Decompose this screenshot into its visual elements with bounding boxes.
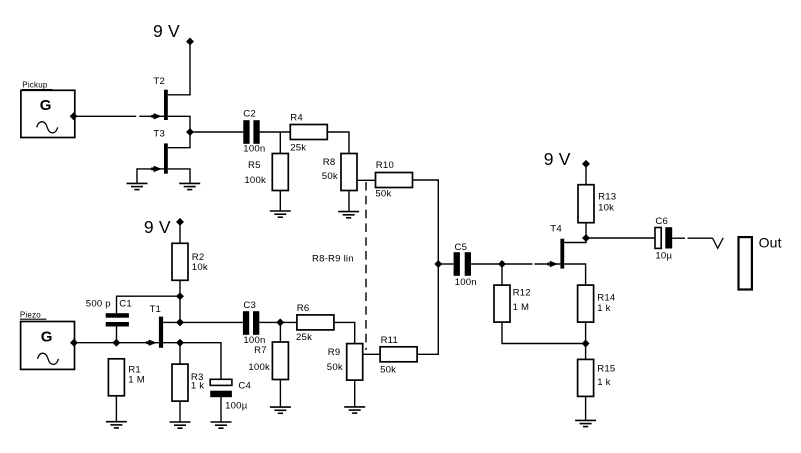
capacitor C1 bbox=[106, 313, 129, 326]
transistor T2 gate arrow bbox=[151, 113, 162, 119]
label Pickup bbox=[22, 81, 48, 90]
wire R10 to mix node bbox=[413, 180, 439, 264]
node R2/C1 junction bbox=[177, 293, 184, 300]
label T2 bbox=[153, 76, 165, 87]
wire 9V to R13 bbox=[585, 167, 587, 185]
wire T1 drain node to C3 bbox=[180, 321, 243, 323]
label Out bbox=[759, 235, 782, 251]
sine symbol (pickup) bbox=[37, 122, 58, 133]
wire gate node to R12 bbox=[501, 264, 503, 285]
wire R7 to ground bbox=[279, 380, 281, 408]
ground (R5) bbox=[270, 211, 291, 217]
wire C2 to R4 bbox=[260, 131, 291, 133]
ground (T3 gate) bbox=[127, 183, 148, 189]
node R14/R15 junction bbox=[582, 340, 589, 347]
label R4 value 25k bbox=[290, 142, 306, 153]
node T1 source junction bbox=[177, 339, 184, 346]
wire T4 drain bbox=[564, 238, 586, 243]
svg-text:10k: 10k bbox=[192, 262, 208, 273]
svg-text:R14: R14 bbox=[597, 292, 616, 303]
label R14 bbox=[597, 292, 616, 303]
label R2 bbox=[192, 252, 205, 263]
label R7 value 100k bbox=[248, 362, 270, 373]
wire T2/T3 node to C2 bbox=[190, 131, 243, 133]
ground (R1) bbox=[106, 422, 127, 428]
node piezo input junction bbox=[113, 339, 120, 346]
label R2 value 10k bbox=[192, 262, 208, 273]
svg-text:25k: 25k bbox=[290, 142, 306, 153]
node 9V right terminal bbox=[583, 161, 590, 168]
svg-text:R8-R9 lin: R8-R9 lin bbox=[312, 253, 354, 264]
label R6 value 25k bbox=[296, 332, 312, 343]
svg-text:1 M: 1 M bbox=[128, 375, 145, 386]
label G (pickup generator) bbox=[40, 97, 52, 114]
wire pickup to T2 gate (segment 2) bbox=[139, 115, 164, 117]
svg-text:R5: R5 bbox=[248, 160, 261, 171]
ground (T3 source) bbox=[179, 183, 200, 189]
source box Piezo bbox=[20, 319, 75, 369]
capacitor C5 bbox=[454, 252, 471, 276]
resistor R7 bbox=[272, 342, 288, 380]
capacitor C4 (polarized) bbox=[210, 379, 232, 397]
svg-text:50k: 50k bbox=[375, 188, 391, 199]
capacitor C2 bbox=[243, 120, 259, 144]
wire gate node to T4 (segment 2) bbox=[535, 263, 561, 265]
svg-text:C1: C1 bbox=[119, 299, 132, 310]
label C5 bbox=[455, 242, 468, 253]
capacitor C6 (polarized) bbox=[655, 227, 672, 248]
node T4 drain junction bbox=[583, 235, 590, 242]
wire C4 to ground bbox=[220, 397, 222, 422]
output pin V symbol bbox=[713, 238, 724, 249]
svg-text:50k: 50k bbox=[327, 362, 343, 373]
label R9 bbox=[328, 347, 341, 358]
transistor T3 gate arrow bbox=[151, 166, 162, 172]
potentiometer R9 bbox=[347, 344, 363, 381]
label C4 value 100u bbox=[225, 400, 248, 411]
label R1 bbox=[128, 365, 141, 376]
svg-text:25k: 25k bbox=[296, 332, 312, 343]
svg-text:R9: R9 bbox=[328, 347, 341, 358]
wire T3 source to ground bbox=[168, 169, 190, 184]
source box Pickup bbox=[21, 90, 75, 138]
label C5 value 100n bbox=[455, 277, 477, 288]
label R3 bbox=[191, 372, 204, 383]
svg-text:G: G bbox=[40, 97, 52, 114]
ground (C4) bbox=[211, 422, 232, 428]
label R11 value 50k bbox=[380, 364, 396, 375]
transistor T4 gate arrow bbox=[547, 261, 558, 267]
label T1 bbox=[150, 304, 162, 315]
resistor R15 bbox=[578, 359, 594, 396]
resistor R11 bbox=[380, 347, 417, 362]
svg-text:500 p: 500 p bbox=[86, 299, 111, 310]
node R7 junction bbox=[277, 319, 284, 326]
resistor R3 bbox=[172, 364, 188, 401]
wire R8 wiper to R10 bbox=[357, 179, 376, 181]
wire R5 to ground bbox=[279, 191, 281, 212]
svg-text:10µ: 10µ bbox=[655, 251, 672, 262]
label Piezo bbox=[20, 310, 41, 319]
wire source node to C4 bbox=[180, 343, 221, 380]
svg-text:50k: 50k bbox=[380, 364, 396, 375]
resistor R14 bbox=[578, 285, 594, 322]
label C3 value 100n bbox=[243, 335, 265, 346]
wire R9 to ground bbox=[354, 380, 356, 407]
node piezo output bbox=[71, 339, 78, 346]
wire T1 drain bbox=[163, 321, 180, 323]
label R15 bbox=[597, 363, 615, 374]
resistor R1 bbox=[108, 359, 124, 396]
svg-text:50k: 50k bbox=[322, 171, 338, 182]
svg-text:R10: R10 bbox=[376, 160, 394, 171]
label R8 value 50k bbox=[322, 171, 338, 182]
wire T2 drain bbox=[168, 94, 191, 96]
svg-text:1 k: 1 k bbox=[597, 303, 610, 314]
node T4 gate junction bbox=[499, 261, 506, 268]
svg-text:9 V: 9 V bbox=[144, 217, 171, 237]
label R11 bbox=[381, 335, 399, 346]
wire R15 to ground bbox=[585, 396, 587, 420]
resistor R4 bbox=[290, 125, 327, 140]
label R15 value 1 k bbox=[597, 377, 610, 388]
transistor T3 channel bar bbox=[164, 143, 168, 173]
svg-text:9 V: 9 V bbox=[153, 21, 180, 41]
svg-text:C5: C5 bbox=[455, 242, 468, 253]
node mix junction bbox=[435, 261, 442, 268]
gang line R8-R9 (dashed) bbox=[365, 182, 367, 350]
wire R3 to ground bbox=[179, 401, 181, 422]
node 9V top terminal bbox=[187, 38, 194, 45]
label R8-R9 lin bbox=[312, 253, 354, 264]
resistor R6 bbox=[297, 315, 334, 330]
wire R9 wiper to R11 bbox=[363, 353, 380, 355]
wire junction to R5 bbox=[279, 132, 281, 154]
svg-text:T2: T2 bbox=[153, 76, 165, 87]
node T1 drain junction bbox=[177, 319, 184, 326]
wire 9V to T2 drain bbox=[189, 44, 191, 95]
svg-text:R6: R6 bbox=[297, 303, 310, 314]
potentiometer R8 bbox=[341, 154, 357, 191]
svg-text:R12: R12 bbox=[513, 287, 531, 298]
resistor R5 bbox=[272, 154, 288, 191]
label R13 bbox=[598, 191, 616, 202]
label C2 bbox=[243, 108, 256, 119]
svg-text:R4: R4 bbox=[290, 113, 303, 124]
wire R14 to divider node bbox=[585, 322, 587, 359]
resistor R10 bbox=[376, 173, 413, 188]
label R4 bbox=[290, 113, 303, 124]
label R14 value 1 k bbox=[597, 303, 610, 314]
wire C6 to output pin (segment 1) bbox=[672, 237, 685, 239]
ground (R3) bbox=[170, 422, 191, 428]
wire junction to R7 bbox=[279, 322, 281, 342]
svg-text:C6: C6 bbox=[655, 216, 668, 227]
label R12 value 1 M bbox=[513, 302, 530, 313]
svg-text:100µ: 100µ bbox=[225, 400, 248, 411]
transistor T1 gate arrow bbox=[146, 340, 157, 346]
wire R2 to drain node bbox=[179, 280, 181, 296]
label C6 bbox=[655, 216, 668, 227]
svg-text:G: G bbox=[41, 329, 53, 346]
wire C5 to gate node bbox=[471, 263, 502, 265]
wire T1 source bbox=[163, 342, 180, 344]
wire R8 to ground bbox=[348, 191, 350, 212]
capacitor C3 bbox=[243, 311, 259, 335]
label R6 bbox=[297, 303, 310, 314]
ground (R9) bbox=[344, 407, 365, 413]
svg-text:T3: T3 bbox=[153, 129, 165, 140]
resistor R2 bbox=[172, 243, 188, 280]
label R13 value 10k bbox=[598, 203, 614, 214]
wire mix node to C5 bbox=[438, 263, 453, 265]
resistor R13 bbox=[578, 185, 594, 223]
svg-text:100k: 100k bbox=[244, 175, 266, 186]
resistor R12 bbox=[494, 285, 510, 322]
svg-text:Pickup: Pickup bbox=[22, 81, 48, 90]
label C4 bbox=[238, 380, 251, 391]
power 9V supply label (top) bbox=[153, 21, 180, 41]
svg-text:9 V: 9 V bbox=[544, 149, 571, 169]
wire R13 to T4 drain node bbox=[585, 223, 587, 238]
wire R1 to ground bbox=[115, 396, 117, 422]
wire R4 to R8 bbox=[327, 132, 349, 154]
label R5 bbox=[248, 160, 261, 171]
svg-text:C4: C4 bbox=[238, 380, 251, 391]
wire R11 to mix node bbox=[417, 264, 438, 354]
label T3 bbox=[153, 129, 165, 140]
svg-text:100n: 100n bbox=[455, 277, 477, 288]
wire C6 to output pin (segment 2) bbox=[688, 237, 713, 239]
node 9V middle terminal bbox=[177, 219, 184, 226]
wire piezo to T1 gate bbox=[74, 342, 159, 344]
wire R12 to divider node bbox=[502, 322, 586, 343]
label R9 value 50k bbox=[327, 362, 343, 373]
svg-text:R13: R13 bbox=[598, 191, 616, 202]
wire C3 to R6 bbox=[259, 321, 297, 323]
label R8 bbox=[323, 157, 336, 168]
label T4 bbox=[550, 224, 562, 235]
svg-text:R15: R15 bbox=[597, 363, 615, 374]
node T2/T3 junction bbox=[187, 129, 194, 136]
svg-text:100k: 100k bbox=[248, 362, 270, 373]
label R1 value 1 M bbox=[128, 375, 145, 386]
ground (R15) bbox=[575, 420, 596, 426]
wire T3 gate to ground bbox=[137, 169, 164, 184]
power 9V supply label (middle) bbox=[144, 217, 171, 237]
svg-text:R7: R7 bbox=[254, 345, 267, 356]
label R10 bbox=[376, 160, 394, 171]
node pickup output bbox=[70, 113, 77, 120]
wire T4 source to R14 bbox=[564, 264, 585, 285]
wire drain node down bbox=[179, 296, 181, 322]
svg-text:T4: T4 bbox=[550, 224, 562, 235]
label C1 bbox=[119, 299, 132, 310]
svg-text:1 k: 1 k bbox=[191, 380, 204, 391]
svg-text:Out: Out bbox=[759, 235, 782, 251]
svg-text:C2: C2 bbox=[243, 108, 256, 119]
transistor T4 channel bar bbox=[560, 239, 564, 269]
svg-text:1 M: 1 M bbox=[513, 302, 530, 313]
svg-text:100n: 100n bbox=[243, 144, 265, 155]
svg-text:R11: R11 bbox=[381, 335, 399, 346]
label R7 bbox=[254, 345, 267, 356]
svg-text:C3: C3 bbox=[243, 300, 256, 311]
power 9V supply label (right) bbox=[544, 149, 571, 169]
wire source node to R3 bbox=[179, 343, 181, 364]
wire C1 feedback top bbox=[117, 296, 181, 313]
transistor T2 channel bar bbox=[164, 90, 168, 120]
svg-text:10k: 10k bbox=[598, 203, 614, 214]
label C6 value 10u bbox=[655, 251, 672, 262]
svg-text:T1: T1 bbox=[150, 304, 162, 315]
label R3 value 1 k bbox=[191, 380, 204, 391]
label R12 bbox=[513, 287, 531, 298]
wire T3 drain bbox=[168, 132, 190, 148]
wire T2 source bbox=[168, 116, 190, 132]
ground (R8) bbox=[338, 212, 359, 218]
ground (R7) bbox=[270, 407, 291, 413]
svg-text:R8: R8 bbox=[323, 157, 336, 168]
transistor T1 channel bar bbox=[159, 317, 163, 348]
wire 9V to R2 bbox=[179, 225, 181, 244]
sine symbol (piezo) bbox=[38, 353, 59, 364]
wire C1 bottom to input node bbox=[116, 327, 118, 344]
svg-text:Piezo: Piezo bbox=[20, 310, 41, 319]
svg-text:1 k: 1 k bbox=[597, 377, 610, 388]
wire T4 drain node to C6 bbox=[586, 237, 655, 239]
wire gate node to T4 (segment 1) bbox=[502, 263, 533, 265]
wire R6 to R9 bbox=[334, 322, 355, 343]
label G (piezo generator) bbox=[41, 329, 53, 346]
label 500 p bbox=[86, 299, 111, 310]
wire pickup to T2 gate (segment 1) bbox=[74, 115, 137, 117]
label R10 value 50k bbox=[375, 188, 391, 199]
label R5 value 100k bbox=[244, 175, 266, 186]
label C2 value 100n bbox=[243, 144, 265, 155]
label C3 bbox=[243, 300, 256, 311]
connector Out box bbox=[739, 237, 752, 289]
